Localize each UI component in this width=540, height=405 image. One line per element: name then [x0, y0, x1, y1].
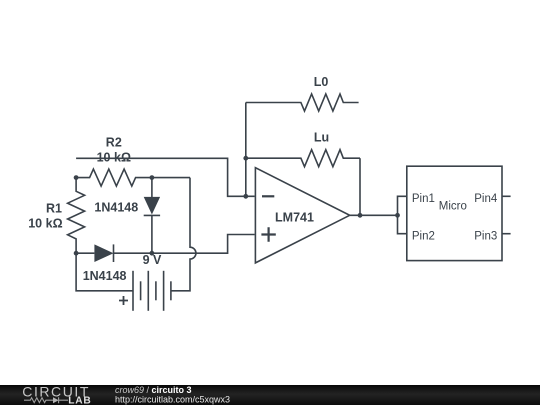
node: bus/Lu junction: [243, 156, 248, 161]
svg-text:Pin2: Pin2: [412, 231, 435, 243]
wire: R2 right lead down to battery positive (with hop over node-B wire): [171, 178, 196, 291]
node: bus/inverting-input junction: [243, 194, 248, 199]
op-amp U1 LM741: [255, 168, 349, 263]
svg-text:LM741: LM741: [275, 210, 314, 224]
svg-text:http://circuitlab.com/c5xqwx3: http://circuitlab.com/c5xqwx3: [115, 394, 230, 404]
diode D2 1N4148 (vertical, anode top): [94, 178, 160, 254]
node: feedback/output junction: [358, 213, 363, 218]
node: R1 bottom / D1 anode / battery-left junction: [74, 251, 79, 256]
wire: pin bus joining Pin1 and Pin2 stubs: [398, 196, 407, 233]
svg-text:LAB: LAB: [68, 396, 91, 405]
inductor L0: [246, 75, 359, 111]
pin stub: Pin3: [502, 233, 511, 235]
svg-text:Lu: Lu: [314, 131, 329, 145]
wire: op-amp output to micro pin bus: [350, 214, 398, 216]
diode D1 1N4148 (horizontal, anode left): [76, 235, 255, 284]
inductor Lu: [246, 131, 360, 167]
svg-text:Pin1: Pin1: [412, 193, 435, 205]
node: R2 right / D2 top junction: [150, 175, 155, 180]
svg-text:L0: L0: [314, 75, 329, 89]
node: output/pin-bus junction: [395, 213, 400, 218]
CircuitLab logo: resistor-diode squiggle: [24, 398, 53, 403]
svg-text:Pin3: Pin3: [474, 231, 497, 243]
wire: R2 top wire from node A down-step to op-amp inverting input: [76, 158, 255, 196]
resistor R1: [28, 178, 84, 254]
svg-text:10 kΩ: 10 kΩ: [97, 151, 131, 165]
svg-text:9 V: 9 V: [143, 253, 162, 267]
pin stub: Pin4: [502, 195, 511, 197]
wire: Lu feedback vertical to op-amp output: [359, 158, 361, 215]
svg-text:1N4148: 1N4148: [94, 201, 138, 215]
resistor R2: [76, 136, 190, 187]
svg-text:Pin4: Pin4: [474, 193, 498, 205]
svg-text:R1: R1: [46, 202, 62, 216]
svg-text:10 kΩ: 10 kΩ: [28, 216, 62, 230]
svg-text:1N4148: 1N4148: [83, 269, 127, 283]
node: R1/R2 left junction: [74, 175, 79, 180]
footer bar: [0, 385, 540, 405]
node: D1 cathode / D2 bottom junction: [150, 251, 155, 256]
svg-text:Micro: Micro: [439, 200, 467, 212]
svg-text:R2: R2: [106, 136, 122, 150]
battery V1 9V: [119, 253, 171, 311]
wire: vertical bus joining L0 and Lu left leads to inverting input: [245, 103, 247, 197]
wire: battery left lead: [76, 253, 133, 291]
micro U2 box: [407, 166, 502, 260]
